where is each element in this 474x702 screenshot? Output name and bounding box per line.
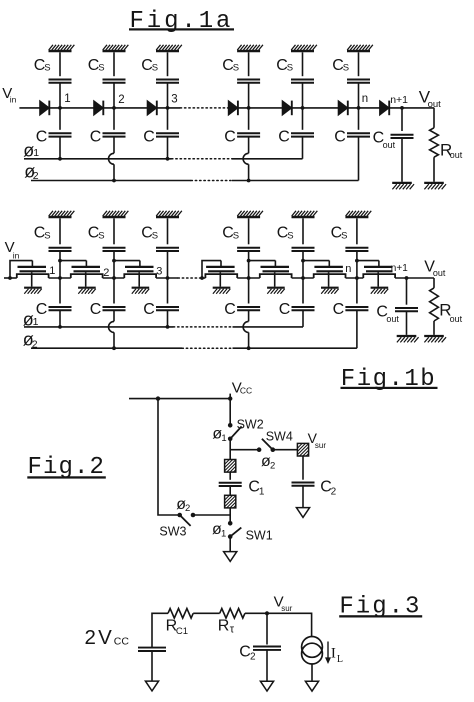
label 2Vcc (Fig.3) <box>85 626 130 649</box>
ground chassis top, stage 1 (Fig.1b) <box>49 211 75 217</box>
wire: left branch vertical (Fig.2) <box>158 399 180 515</box>
svg-text:R: R <box>218 617 230 634</box>
wire: gate loop of Q1 from baseline (Fig.1b) <box>10 261 32 278</box>
label Vsur (Fig.3) <box>274 594 293 614</box>
svg-text:1: 1 <box>33 147 39 159</box>
switch SW3 (Fig.2) <box>177 513 195 526</box>
phi1 label (Fig.1a) <box>23 141 39 161</box>
diode 1 (Fig.1a) <box>40 101 50 116</box>
wire: ground to Cs stage 1 (Fig.1a) <box>59 52 61 76</box>
wire: current source to ground (Fig.3) <box>311 664 313 681</box>
wire: ground to Cs stage 4 (Fig.1b) <box>248 218 250 244</box>
svg-text:C: C <box>224 301 236 318</box>
label Vin (Fig.1b) <box>5 239 20 260</box>
upper node dot stage 6 (Fig.1b) <box>355 259 359 263</box>
resistor Rtau (Fig.3) <box>220 609 245 619</box>
capacitor C stage 4 (Fig.1b) <box>237 307 260 310</box>
wire: node 1 to capacitor C (Fig.1a) <box>59 108 61 130</box>
capacitor C stage 2 (Fig.1a) <box>103 133 126 136</box>
wire: Cs to rail stage 4 (Fig.1b) <box>248 251 250 278</box>
capacitor Cs stage 2 (Fig.1b) <box>103 248 126 251</box>
wire: gate loop of Qn from node (Fig.1b) <box>303 260 329 262</box>
wire: Vout to Rout (Fig.1b) <box>433 278 435 288</box>
svg-text:S: S <box>152 230 158 241</box>
label Cs stage 3 (Fig.1a) <box>141 57 158 74</box>
svg-text:C: C <box>333 301 345 318</box>
wire: node 5 to capacitor C (Fig.1b) <box>302 278 304 304</box>
diode 6 (Fig.1a) <box>338 101 348 116</box>
wire: C1 to Z2 (Fig.2) <box>229 486 231 495</box>
svg-text:out: out <box>383 140 396 150</box>
upper node dot stage 1 (Fig.1b) <box>58 259 62 263</box>
resistor Rout (Fig.1b) <box>430 288 439 321</box>
label Cout (Fig.1b) <box>376 303 399 324</box>
capacitor Cs stage 1 (Fig.1b) <box>49 248 72 251</box>
wire with hop over phi1, C stage 2 to phi2 (Fig.1b) <box>109 310 114 348</box>
svg-text:2: 2 <box>250 652 256 663</box>
wire: Vin input line (Fig.1a) <box>19 107 39 109</box>
wire: C stage 3 to phi1 line (Fig.1a) <box>167 137 169 159</box>
svg-text:S: S <box>341 230 347 241</box>
svg-text:C: C <box>279 301 291 318</box>
junction dot gate loop anchor Q4 (Fig.1b) <box>200 276 204 280</box>
capacitor C2 (Fig.2) <box>292 483 315 486</box>
transistor Q3 (Fig.1b) <box>124 261 156 294</box>
wire with hop over phi1, C stage 2 to phi2 (Fig.1a) <box>109 137 114 181</box>
svg-text:1: 1 <box>221 433 226 444</box>
wire: node 2 to capacitor C (Fig.1a) <box>113 108 115 130</box>
ground triangle below IL (Fig.3) <box>305 681 318 691</box>
wire: C stage 3 to phi1 line (Fig.1b) <box>167 310 169 327</box>
wire: C2 to ground (Fig.3) <box>266 650 268 681</box>
svg-text:1: 1 <box>64 93 70 105</box>
label Cs stage 2 (Fig.1b) <box>88 225 105 242</box>
svg-text:C: C <box>36 129 48 146</box>
capacitor Cs stage 3 (Fig.1b) <box>156 248 179 251</box>
Vcc supply rail (Fig.2) <box>129 398 230 400</box>
wire: gate loop of Q4 from baseline (Fig.1b) <box>202 261 221 278</box>
wire: Cs to rail stage 5 (Fig.1b) <box>302 251 304 278</box>
wire: surge box to C2 (Fig.2) <box>302 456 304 480</box>
wire: ground to Cs stage 2 (Fig.1a) <box>113 52 115 76</box>
wire: Cs to node 3 (Fig.1a) <box>167 83 169 108</box>
baseline dotted section (Fig.1b) <box>178 277 201 279</box>
wire: gate loop of Q5 from node (Fig.1b) <box>249 260 276 262</box>
wire: Vcc to SW2 (Fig.2) <box>229 399 231 426</box>
wire: ground to Cs stage 2 (Fig.1b) <box>113 218 115 244</box>
svg-text:3: 3 <box>171 94 177 106</box>
current source IL (Fig.3) <box>302 637 323 664</box>
wire: node 5 to capacitor C (Fig.1a) <box>302 108 304 130</box>
wire: Cs to node 5 (Fig.1a) <box>302 83 304 108</box>
label Rtau (Fig.3) <box>218 617 235 635</box>
svg-text:S: S <box>343 63 349 74</box>
label Rout (Fig.1b) <box>439 300 462 324</box>
svg-text:S: S <box>287 63 293 74</box>
wire: Cs to rail stage 3 (Fig.1b) <box>167 251 169 278</box>
svg-text:2: 2 <box>185 503 190 514</box>
capacitor C stage 1 (Fig.1a) <box>49 133 72 136</box>
svg-text:n: n <box>362 93 368 105</box>
svg-text:1: 1 <box>259 487 265 498</box>
node dot 1 on main line (Fig.1a) <box>58 106 62 110</box>
wire: ground to Cs stage 1 (Fig.1b) <box>59 218 61 244</box>
upper node dot stage 2 (Fig.1b) <box>112 259 116 263</box>
svg-text:C1: C1 <box>176 626 188 637</box>
phi2 label at SW4 (Fig.2) <box>261 453 275 471</box>
junction dot gate loop anchor Q1 (Fig.1b) <box>8 276 12 280</box>
wire: Cout to ground (Fig.1b) <box>406 311 408 335</box>
svg-text:S: S <box>98 230 104 241</box>
wire: SW3 to C1 bottom node (Fig.2) <box>193 514 230 516</box>
figure title Fig.2 <box>27 454 106 481</box>
capacitor C stage 6 (Fig.1a) <box>347 133 370 136</box>
svg-text:C: C <box>334 129 346 146</box>
svg-text:S: S <box>44 230 50 241</box>
capacitor Cs stage 4 (Fig.1b) <box>237 248 260 251</box>
wire: C stage 6 to phi2 line (Fig.1a) <box>358 137 360 181</box>
wire: ground to Cs stage 5 (Fig.1a) <box>302 52 304 76</box>
label C2 (Fig.3) <box>239 643 256 662</box>
wire: 2Vcc to ground (Fig.3) <box>151 651 153 681</box>
wire: node 2 to capacitor C (Fig.1b) <box>113 278 115 304</box>
ground chassis top, stage 5 (Fig.1b) <box>292 211 318 217</box>
phi2 line (Fig.1b) <box>31 347 357 349</box>
junction dot Vcc node (Fig.2) <box>228 396 232 400</box>
capacitor C stage 3 (Fig.1b) <box>156 307 179 310</box>
phi2 label at SW3 (Fig.2) <box>176 496 190 514</box>
capacitor C stage 2 (Fig.1b) <box>103 307 126 310</box>
transistor Q5 (Fig.1b) <box>260 261 292 294</box>
wire: branch to SW4 (Fig.2) <box>230 449 259 451</box>
impedance box Z1 (Fig.2) <box>225 460 236 473</box>
label Cs stage 4 (Fig.1b) <box>222 225 239 242</box>
svg-text:out: out <box>450 150 463 160</box>
label Vcc (Fig.2) <box>232 380 252 397</box>
svg-text:Fig.1a: Fig.1a <box>130 8 234 35</box>
capacitor Cs stage 5 (Fig.1a) <box>291 80 314 83</box>
svg-text:L: L <box>337 654 343 665</box>
transistor Q2 (Fig.1b) <box>71 261 103 294</box>
wire: node 1 to capacitor C (Fig.1b) <box>59 278 61 304</box>
capacitor Cs stage 2 (Fig.1a) <box>103 80 126 83</box>
svg-text:S: S <box>233 230 239 241</box>
label Cs stage 5 (Fig.1b) <box>277 225 294 242</box>
wire: Z2 to SW1 (Fig.2) <box>229 508 231 523</box>
diode 4 (Fig.1a) <box>228 101 238 116</box>
wire: C2 to ground (Fig.2) <box>302 486 304 508</box>
wire: Rout to ground (Fig.1b) <box>433 321 435 335</box>
main wire solid right section (Fig.1a) <box>228 107 435 109</box>
wire: gate loop of Q2 from node (Fig.1b) <box>60 260 86 262</box>
node dot 5 on main line (Fig.1a) <box>301 106 305 110</box>
label C1 (Fig.2) <box>248 478 265 497</box>
capacitor C stage 5 (Fig.1a) <box>291 133 314 136</box>
svg-text:C: C <box>143 129 155 146</box>
svg-text:C: C <box>278 129 290 146</box>
wire: node 3 to capacitor C (Fig.1a) <box>167 108 169 130</box>
diode n+1 (Fig.1a) <box>380 101 390 116</box>
label Vout (Fig.1b) <box>424 258 446 278</box>
label Cs stage 1 (Fig.1b) <box>34 225 51 242</box>
phi1 label at SW2 (Fig.2) <box>212 426 226 444</box>
resistor RC1 (Fig.3) <box>168 609 193 619</box>
baseline node dot stage 1 (Fig.1b) <box>58 276 62 280</box>
svg-text:1: 1 <box>221 528 226 539</box>
capacitor C stage 6 (Fig.1b) <box>345 307 368 310</box>
wire: Vcc tick (Fig.2) <box>229 394 231 399</box>
node dot 3 on main line (Fig.1a) <box>166 106 170 110</box>
junction dot stage 3 on phi1 (Fig.1a) <box>166 157 170 161</box>
svg-text:C: C <box>90 129 102 146</box>
wire: Cs to rail stage 2 (Fig.1b) <box>113 251 115 278</box>
wire: ground to Cs stage 5 (Fig.1b) <box>302 218 304 244</box>
wire: RC1 to Rtau (Fig.3) <box>193 612 220 614</box>
wire: node 6 to capacitor C (Fig.1b) <box>356 278 358 304</box>
wire: node to Cout (Fig.1b) <box>406 278 408 305</box>
baseline node dot stage 2 (Fig.1b) <box>112 276 116 280</box>
main wire dotted section (Fig.1a) <box>180 107 227 109</box>
impedance box Z2 (Fig.2) <box>225 495 236 508</box>
svg-text:out: out <box>386 314 399 324</box>
svg-text:SW2: SW2 <box>237 418 264 432</box>
label C2 (Fig.2) <box>320 478 336 497</box>
svg-text:in: in <box>13 250 20 260</box>
svg-text:S: S <box>98 63 104 74</box>
svg-text:sur: sur <box>281 604 292 613</box>
ground chassis top, stage 6 (Fig.1a) <box>347 45 373 51</box>
wire: C stage 1 to phi1 line (Fig.1b) <box>59 310 61 327</box>
ground triangle below C2 (Fig.2) <box>296 508 309 518</box>
transistor Qn (Fig.1b) <box>314 261 346 294</box>
label Rout (Fig.1a) <box>440 140 463 160</box>
label Cs stage 6 (Fig.1b) <box>331 225 348 242</box>
baseline node dot stage 5 (Fig.1b) <box>301 276 305 280</box>
source capacitor 2Vcc (Fig.3) <box>138 648 166 651</box>
junction dot stage 4 on phi2 (Fig.1a) <box>247 179 251 183</box>
wire: Cs to node 1 (Fig.1a) <box>59 83 61 108</box>
figure title Fig.3 <box>339 593 422 620</box>
svg-text:I: I <box>331 645 336 661</box>
transistor Q1 (Fig.1b) <box>17 261 49 294</box>
phi1 line (Fig.1a) <box>24 158 303 160</box>
transistor Q4 (Fig.1b) <box>205 261 237 294</box>
wire: Cs to node 6 (Fig.1a) <box>358 83 360 108</box>
svg-text:C: C <box>90 301 102 318</box>
label Cs stage 4 (Fig.1a) <box>222 57 239 74</box>
output node dot (Fig.1b) <box>405 276 409 280</box>
ground chassis top, stage 2 (Fig.1a) <box>103 45 129 51</box>
wire: Vsur node to C2 (Fig.3) <box>266 613 268 644</box>
label Vout (Fig.1a) <box>419 88 441 111</box>
label Cs stage 3 (Fig.1b) <box>141 225 158 242</box>
node dot 4 on main line (Fig.1a) <box>247 106 251 110</box>
capacitor Cout (Fig.1a) <box>391 135 414 138</box>
ground chassis top, stage 4 (Fig.1a) <box>237 45 263 51</box>
label Cs stage 1 (Fig.1a) <box>34 57 51 74</box>
label Cs stage 6 (Fig.1a) <box>332 57 349 74</box>
wire: node to Cout (Fig.1a) <box>401 108 403 131</box>
ground chassis top, stage 6 (Fig.1b) <box>345 211 371 217</box>
baseline node dot stage 3 (Fig.1b) <box>166 276 170 280</box>
wire: C stage 5 to phi1 line (Fig.1b) <box>302 310 304 327</box>
ground below Rout (Fig.1a) <box>424 183 446 189</box>
wire: Cs to rail stage 6 (Fig.1b) <box>356 251 358 278</box>
junction dot stage 2 on phi2 (Fig.1b) <box>112 346 116 350</box>
label Vsur (Fig.2) <box>308 430 327 450</box>
svg-text:S: S <box>287 230 293 241</box>
svg-text:2: 2 <box>118 94 124 106</box>
ground below Rout (Fig.1b) <box>424 336 446 342</box>
diode 2 (Fig.1a) <box>94 101 104 116</box>
ground chassis top, stage 3 (Fig.1b) <box>156 211 182 217</box>
wire: ground to Cs stage 6 (Fig.1a) <box>358 52 360 76</box>
main wire solid left section (Fig.1a) <box>40 107 180 109</box>
junction dot stage 4 on phi2 (Fig.1b) <box>247 346 251 350</box>
capacitor Cs stage 5 (Fig.1b) <box>292 248 315 251</box>
capacitor Cs stage 3 (Fig.1a) <box>156 80 179 83</box>
svg-text:C: C <box>143 301 155 318</box>
svg-text:τ: τ <box>230 624 235 636</box>
svg-text:2: 2 <box>103 267 109 279</box>
wire: gate loop of Q3 from node (Fig.1b) <box>114 260 140 262</box>
ground chassis top, stage 1 (Fig.1a) <box>49 45 75 51</box>
capacitor Cs stage 6 (Fig.1b) <box>345 248 368 251</box>
junction dot stage 1 on phi1 (Fig.1b) <box>58 325 62 329</box>
svg-text:2: 2 <box>270 460 275 471</box>
ground chassis top, stage 2 (Fig.1b) <box>103 211 129 217</box>
svg-text:n+1: n+1 <box>390 94 408 106</box>
label Cout (Fig.1a) <box>373 129 396 150</box>
wire: C stage 1 to phi1 line (Fig.1a) <box>59 137 61 159</box>
capacitor C1 (Fig.2) <box>219 483 242 486</box>
switch SW1 (Fig.2) <box>228 521 241 539</box>
svg-text:SW1: SW1 <box>246 528 273 542</box>
svg-text:S: S <box>44 63 50 74</box>
wire: ground to Cs stage 6 (Fig.1b) <box>356 218 358 244</box>
wire: Cs to node 4 (Fig.1a) <box>248 83 250 108</box>
phi1 label at SW1 (Fig.2) <box>212 521 226 539</box>
capacitor C stage 1 (Fig.1b) <box>49 307 72 310</box>
svg-text:CC: CC <box>114 636 130 648</box>
wire: node 4 to capacitor C (Fig.1b) <box>248 278 250 304</box>
upper node dot stage 5 (Fig.1b) <box>301 259 305 263</box>
svg-text:n: n <box>345 263 351 275</box>
phi2 label (Fig.1a) <box>24 161 39 182</box>
wire: SW1 to ground (Fig.2) <box>229 537 231 552</box>
wire: Cs to node 2 (Fig.1a) <box>113 83 115 108</box>
phi2 line (Fig.1a) <box>31 180 359 182</box>
wire: 2Vcc source top (Fig.3) <box>152 613 168 647</box>
baseline wire segments (Fig.1b) <box>4 277 434 279</box>
junction dot stage 2 on phi2 (Fig.1a) <box>112 179 116 183</box>
wire: ground to Cs stage 4 (Fig.1a) <box>248 52 250 76</box>
capacitor C stage 5 (Fig.1b) <box>292 307 315 310</box>
transistor Qn+1 (Fig.1b) <box>363 261 395 294</box>
ground triangle below SW1 (Fig.2) <box>224 552 237 562</box>
wire: Cs to rail stage 1 (Fig.1b) <box>59 251 61 278</box>
ground triangle below C2 (Fig.3) <box>260 681 273 691</box>
wire: ground to Cs stage 3 (Fig.1b) <box>167 218 169 244</box>
capacitor C2 (Fig.3) <box>253 647 281 650</box>
label IL (Fig.3) <box>331 645 343 665</box>
svg-text:S: S <box>152 63 158 74</box>
wire: gate loop of Qn+1 from node (Fig.1b) <box>357 260 379 262</box>
node dot 2 on main line (Fig.1a) <box>112 106 116 110</box>
svg-text:SW3: SW3 <box>159 524 186 538</box>
svg-text:2V: 2V <box>85 626 114 649</box>
wire: node 3 to capacitor C (Fig.1b) <box>167 278 169 304</box>
wire: SW2 to impedance Z1 (Fig.2) <box>229 439 231 460</box>
switch SW4 (Fig.2) <box>257 439 275 452</box>
phi1 label (Fig.1b) <box>23 309 39 329</box>
svg-text:S: S <box>233 63 239 74</box>
wire: SW4 to surge node (Fig.2) <box>273 449 298 451</box>
upper node dot stage 4 (Fig.1b) <box>247 259 251 263</box>
svg-text:3: 3 <box>156 266 162 278</box>
capacitor C stage 4 (Fig.1a) <box>237 133 260 136</box>
svg-text:2: 2 <box>331 487 337 498</box>
wire: Rtau to Vsur node (Fig.3) <box>245 612 267 614</box>
junction dot left branch (Fig.2) <box>156 396 160 400</box>
svg-text:out: out <box>450 314 463 324</box>
wire with hop over phi1, C stage 4 to phi2 (Fig.1b) <box>243 310 249 348</box>
impedance box Zs at Vsur (Fig.2) <box>297 443 308 456</box>
wire: node 6 to capacitor C (Fig.1a) <box>358 108 360 130</box>
capacitor C stage 3 (Fig.1a) <box>156 133 179 136</box>
svg-text:in: in <box>10 95 17 105</box>
wire: Rout to ground (Fig.1a) <box>433 157 435 182</box>
capacitor Cout (Fig.1b) <box>395 308 418 311</box>
capacitor Cs stage 1 (Fig.1a) <box>49 80 72 83</box>
diode 3 (Fig.1a) <box>147 101 157 116</box>
ground triangle below 2Vcc (Fig.3) <box>145 681 158 691</box>
wire: Vout to Rout (Fig.1a) <box>433 108 435 128</box>
phi2 label (Fig.1b) <box>23 330 38 351</box>
svg-text:C: C <box>224 129 236 146</box>
figure title Fig.1a <box>129 8 234 35</box>
diode 5 (Fig.1a) <box>282 101 292 116</box>
ground chassis top, stage 5 (Fig.1a) <box>291 45 317 51</box>
ground chassis top, stage 4 (Fig.1b) <box>237 211 263 217</box>
wire: C stage 5 to phi1 line (Fig.1a) <box>302 137 304 159</box>
svg-text:SW4: SW4 <box>266 429 293 443</box>
svg-text:out: out <box>433 268 446 278</box>
capacitor Cs stage 6 (Fig.1a) <box>347 80 370 83</box>
svg-text:1: 1 <box>49 265 55 277</box>
label Cs stage 2 (Fig.1a) <box>88 57 105 74</box>
wire: Cout to ground (Fig.1a) <box>401 138 403 182</box>
wire: ground to Cs stage 3 (Fig.1a) <box>167 52 169 76</box>
output node dot (Fig.1a) <box>400 106 404 110</box>
label Vin (Fig.1a) <box>2 85 16 105</box>
wire: node 4 to capacitor C (Fig.1a) <box>248 108 250 130</box>
baseline node dot stage 4 (Fig.1b) <box>247 276 251 280</box>
ground below Cout (Fig.1b) <box>397 336 419 342</box>
figure title Fig.1b <box>341 366 438 393</box>
junction dot stage 3 on phi1 (Fig.1b) <box>166 325 170 329</box>
switch SW2 (Fig.2) <box>228 423 242 441</box>
label Cs stage 5 (Fig.1a) <box>276 57 293 74</box>
resistor Rout (Fig.1a) <box>430 128 439 157</box>
phi1 line (Fig.1b) <box>24 326 303 328</box>
wire: Vsur node to current source (Fig.3) <box>267 613 312 636</box>
baseline node dot stage 6 (Fig.1b) <box>355 276 359 280</box>
svg-text:n+1: n+1 <box>391 263 408 274</box>
node dot 6 on main line (Fig.1a) <box>357 106 361 110</box>
junction dot stage 1 on phi1 (Fig.1a) <box>58 157 62 161</box>
wire with hop over phi1, C stage 4 to phi2 (Fig.1a) <box>243 137 249 181</box>
